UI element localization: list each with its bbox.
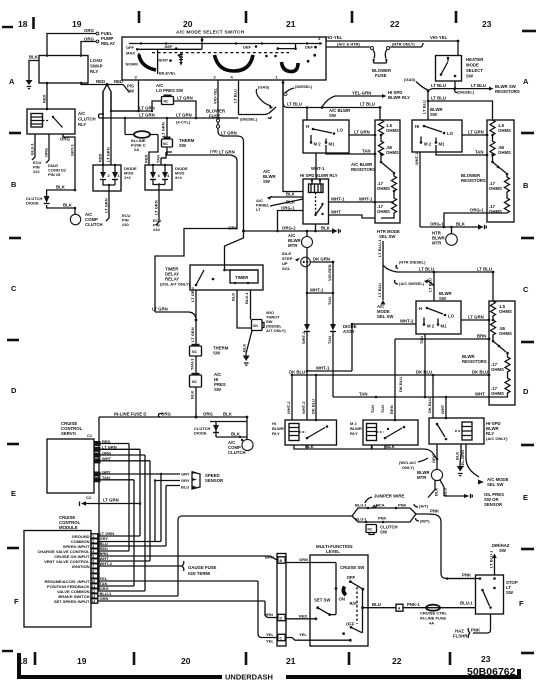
- svg-text:SELECT: SELECT: [466, 68, 483, 73]
- svg-text:YEL: YEL: [266, 639, 274, 644]
- svg-text:DK BLU: DK BLU: [289, 370, 305, 375]
- svg-text:BLK: BLK: [321, 226, 331, 231]
- annotation A/T M/T: [414, 504, 430, 524]
- bottom-left dash: [2, 650, 13, 652]
- svg-text:PNK: PNK: [398, 503, 407, 508]
- svg-text:OHMS: OHMS: [498, 150, 511, 155]
- wire BLU-1 to ECU pin 22: [30, 134, 42, 174]
- svg-text:BRN: BRN: [389, 405, 394, 414]
- svg-text:PNK: PNK: [378, 516, 387, 521]
- svg-text:(DSL A/T ONLY): (DSL A/T ONLY): [160, 282, 191, 287]
- svg-text:LT GRN: LT GRN: [139, 113, 155, 118]
- relay LOAD SWAP RLY: [39, 54, 103, 84]
- svg-text:BLK-1: BLK-1: [244, 291, 249, 304]
- wire RED load swap to P/S SW: [81, 79, 123, 86]
- wire DK BLU WHT into relay3: [427, 374, 447, 418]
- svg-text:A: A: [523, 77, 529, 86]
- svg-text:19: 19: [77, 656, 87, 666]
- resistor bank A/C BLWR RESISTORS: [375, 120, 400, 223]
- wire LT GRN to ECU pin 34: [153, 190, 162, 232]
- wire LT GRN c-row to resistors: [461, 315, 490, 322]
- svg-text:DEF: DEF: [305, 45, 314, 50]
- svg-text:DK BLU: DK BLU: [427, 398, 432, 413]
- svg-text:VIO-YEL: VIO-YEL: [213, 87, 218, 104]
- servo pin A RED: [94, 439, 129, 447]
- svg-text:WHT-1: WHT-1: [310, 288, 324, 293]
- servo pin B2 TAN: [94, 475, 134, 482]
- solenoid IDLE STEP UP SOL: [282, 251, 310, 271]
- svg-text:3: 3: [92, 545, 94, 549]
- svg-text:4A: 4A: [429, 621, 434, 626]
- wire TAN a/c blwr sw to resistors: [326, 145, 376, 155]
- svg-text:D: D: [523, 387, 529, 396]
- tick bottom 4: [348, 652, 351, 665]
- svg-text:(HTR DIESEL): (HTR DIESEL): [399, 260, 426, 265]
- svg-text:OHMS: OHMS: [386, 128, 399, 133]
- svg-text:DK BLU: DK BLU: [398, 377, 403, 392]
- svg-text:CRUISE SW: CRUISE SW: [340, 565, 365, 570]
- svg-text:BLK: BLK: [190, 391, 195, 399]
- svg-text:SW: SW: [439, 296, 447, 301]
- wire LT BLU heater bottom bus: [428, 81, 494, 91]
- svg-text:B: B: [11, 180, 17, 189]
- svg-text:DEF: DEF: [243, 45, 252, 50]
- wire ORG-1 resistors to bus: [444, 208, 489, 228]
- diode module DIODE MOD 3+4: [145, 164, 188, 190]
- wire LT GRN V8 run: [167, 147, 237, 160]
- svg-text:(HTR ONLY): (HTR ONLY): [392, 42, 415, 47]
- svg-text:OHMS: OHMS: [386, 150, 399, 155]
- left dash r5: [7, 547, 19, 550]
- wire LT GRN branch to diode mod 1: [111, 92, 155, 111]
- fuse blower fuse left symbol: [216, 119, 243, 142]
- svg-text:IGN TERMI: IGN TERMI: [188, 571, 210, 576]
- svg-text:OHMS: OHMS: [489, 186, 502, 191]
- svg-text:14: 14: [92, 600, 96, 604]
- wire TAN bus to relays: [333, 392, 446, 414]
- svg-text:LT BLU: LT BLU: [428, 278, 433, 292]
- svg-text:SOL: SOL: [282, 266, 291, 271]
- svg-text:RLY: RLY: [272, 431, 280, 436]
- mode switch selector dashed line: [152, 45, 289, 53]
- svg-text:LT BLU-1: LT BLU-1: [489, 550, 494, 568]
- lamp A/C panel light symbol: [179, 53, 183, 66]
- mode switch inner contact rail: [129, 37, 322, 45]
- svg-text:BLU-1: BLU-1: [460, 601, 473, 606]
- node fuel pump relay label: [101, 31, 115, 46]
- svg-text:MTR: MTR: [417, 475, 427, 480]
- annotation A/C DIESEL: [395, 279, 434, 286]
- motor A/C COMP CLUTCH 2: [228, 439, 253, 455]
- svg-text:YEL: YEL: [266, 632, 274, 637]
- wire TAN c-row sw down: [419, 334, 425, 397]
- svg-text:RED: RED: [96, 79, 105, 84]
- svg-text:(DIESEL): (DIESEL): [457, 90, 475, 95]
- tick top 5: [455, 11, 458, 23]
- svg-text:(A/T): (A/T): [419, 504, 429, 509]
- SEC_CROW: [289, 229, 515, 420]
- svg-text:LO: LO: [447, 131, 454, 136]
- tick top 3: [245, 11, 248, 23]
- svg-text:E: E: [523, 493, 528, 502]
- svg-text:MODE: MODE: [466, 63, 479, 68]
- svg-text:GRY-1: GRY-1: [70, 143, 75, 156]
- svg-text:PNK: PNK: [430, 509, 440, 514]
- svg-text:M 2: M 2: [424, 142, 432, 147]
- connector SPEED SENSOR: [192, 471, 224, 489]
- svg-text:BLU: BLU: [372, 602, 381, 607]
- svg-text:SET SW: SET SW: [314, 598, 331, 603]
- SEC_RELAYS: [272, 370, 509, 507]
- wire LT GRN horizontal 4CYL run: [99, 113, 239, 125]
- wire ORG clutch rly to GRY-1: [60, 134, 75, 190]
- switch THERM SW lower: [190, 344, 229, 356]
- switch P/S SW: [123, 84, 135, 94]
- wire BLU-1 fork upper branch NCA: [352, 503, 416, 517]
- svg-text:DIODE: DIODE: [26, 201, 39, 206]
- svg-text:SWAP: SWAP: [90, 64, 103, 69]
- svg-text:RED: RED: [42, 94, 47, 103]
- switch CLUTCH SW: [366, 525, 398, 535]
- pin 2 label: [214, 75, 217, 80]
- wire WHT resistors to relay3: [440, 392, 489, 415]
- wire LT GRN blwr sw to resistors B: [462, 130, 488, 137]
- fuse IN-LINE FUSE C 2A: [124, 117, 158, 152]
- svg-text:PNK-1: PNK-1: [407, 602, 421, 607]
- svg-text:YEL-GRN: YEL-GRN: [352, 91, 371, 96]
- svg-text:ORG: ORG: [84, 37, 94, 42]
- SEC_MIDDLE: [99, 142, 357, 591]
- svg-text:RELAY: RELAY: [101, 41, 115, 46]
- annotation A/C PANEL LT: [256, 192, 303, 213]
- wire VIO-RED down: [327, 262, 333, 324]
- svg-text:RLY: RLY: [350, 431, 358, 436]
- svg-text:BLK: BLK: [286, 200, 296, 205]
- annotation DIESEL pointer: [284, 84, 313, 96]
- servo pin D WHT: [94, 456, 150, 464]
- svg-text:WHT-1: WHT-1: [414, 152, 419, 165]
- svg-text:C: C: [95, 453, 98, 458]
- svg-text:R/A: R/A: [350, 601, 357, 606]
- connector A: [396, 604, 403, 611]
- svg-text:RED: RED: [144, 154, 149, 163]
- svg-text:LT BLU: LT BLU: [377, 283, 382, 297]
- svg-text:LT BLU: LT BLU: [287, 102, 302, 107]
- SEC_BOTTOM: [258, 494, 518, 647]
- svg-text:SENSOR: SENSOR: [484, 502, 503, 507]
- svg-text:TAN: TAN: [370, 405, 375, 413]
- svg-text:10: 10: [92, 580, 96, 584]
- top-right dash: [522, 30, 536, 33]
- annotation GAUGE FUSE IGN TERMI: [182, 561, 217, 576]
- svg-text:A/T ONLY): A/T ONLY): [266, 328, 286, 333]
- svg-text:NC: NC: [192, 380, 198, 384]
- svg-text:TIMER: TIMER: [235, 275, 249, 280]
- svg-text:2A: 2A: [134, 147, 139, 152]
- svg-text:BLK: BLK: [63, 203, 73, 208]
- SEC_BLOWERA: [244, 106, 401, 248]
- wire BLU-1 brake switch long run: [178, 516, 352, 596]
- svg-text:BLK: BLK: [56, 185, 66, 190]
- svg-text:GRN: GRN: [299, 557, 308, 562]
- svg-text:LT GRN: LT GRN: [468, 315, 484, 320]
- svg-text:TAN: TAN: [327, 297, 332, 305]
- svg-text:LT GRN: LT GRN: [219, 150, 235, 155]
- servo pin B LT GRN: [94, 445, 140, 452]
- wire WHT-2 into c-row sw: [307, 319, 416, 372]
- svg-text:LT BLU: LT BLU: [431, 83, 446, 88]
- svg-text:SW: SW: [127, 89, 135, 94]
- connector strip multi-function: [264, 554, 286, 647]
- svg-text:OHMS: OHMS: [499, 309, 512, 314]
- svg-text:TAN: TAN: [327, 336, 332, 344]
- SEC_TOPLEFT: [26, 28, 239, 232]
- svg-text:BRN: BRN: [477, 334, 486, 339]
- svg-text:VIO-RED: VIO-RED: [327, 264, 332, 281]
- svg-text:(A/C DIESEL): (A/C DIESEL): [399, 281, 425, 286]
- svg-text:FLSHR: FLSHR: [453, 634, 468, 639]
- svg-text:ORG-1: ORG-1: [281, 206, 295, 211]
- mode switch wiper line: [137, 44, 202, 75]
- svg-text:DK BLU: DK BLU: [472, 370, 488, 375]
- svg-text:LT GRN: LT GRN: [152, 307, 168, 312]
- wire LT GRN to ECU pin 30: [104, 191, 131, 227]
- relay HI SPD BLWR RLY upper: [300, 173, 338, 224]
- svg-text:RLY: RLY: [90, 69, 98, 74]
- svg-text:WHT: WHT: [440, 404, 445, 414]
- svg-text:TAN-1: TAN-1: [190, 358, 195, 370]
- wire YEL-GRN to hi spd blwr rly: [322, 90, 410, 107]
- wire VIO-YEL top bus pin3: [318, 35, 458, 41]
- svg-text:CLUTCH: CLUTCH: [228, 450, 246, 455]
- svg-text:BLK: BLK: [434, 488, 439, 496]
- svg-text:M1: M1: [441, 324, 448, 329]
- svg-text:GAUGE FUSE: GAUGE FUSE: [188, 565, 217, 570]
- svg-text:A: A: [9, 77, 15, 86]
- speed sensor wires: [154, 472, 190, 490]
- wire ORG junction into timer relay: [225, 142, 246, 265]
- svg-text:CLUTCH: CLUTCH: [78, 117, 96, 122]
- mode switch right dots: [265, 45, 317, 63]
- svg-text:SW: SW: [499, 548, 507, 553]
- box MULTI-FUNCTION LEVEL: [310, 544, 368, 646]
- wire WHT-1 relay to resistors: [329, 197, 395, 204]
- label A/C BLWR RESISTORS: [351, 162, 376, 172]
- wire PNK to haz flshr: [453, 614, 491, 639]
- svg-text:DEF: DEF: [165, 44, 174, 49]
- svg-text:IN-LINE FUSE D: IN-LINE FUSE D: [114, 412, 146, 417]
- svg-text:4: 4: [92, 550, 94, 554]
- wire DK BLU long bus: [289, 370, 490, 393]
- svg-text:RED: RED: [299, 613, 308, 618]
- svg-text:H: H: [306, 124, 309, 129]
- wire WHT-2 diode down: [301, 331, 307, 371]
- box CRUISE CONTROL MODULE: [24, 515, 91, 627]
- wire YEL strip to lever: [286, 632, 352, 642]
- svg-text:OHMS: OHMS: [491, 391, 504, 396]
- svg-text:11: 11: [92, 585, 96, 589]
- relay A/C CLUTCH RLY: [27, 108, 96, 134]
- svg-text:LT BLU: LT BLU: [431, 96, 446, 101]
- svg-text:LO PRES SW: LO PRES SW: [156, 88, 184, 93]
- svg-text:OFF: OFF: [126, 45, 135, 50]
- wire htr mode sel sw to a/c mode sel sw: [377, 229, 400, 300]
- label A/C BLWR SW: [329, 108, 351, 118]
- svg-text:M1: M1: [439, 142, 446, 147]
- svg-text:ASSY: ASSY: [343, 329, 355, 334]
- svg-text:DK GRN: DK GRN: [313, 257, 330, 262]
- svg-text:M 2: M 2: [314, 142, 322, 147]
- wire BLK load swap to ground: [29, 55, 39, 78]
- top-left dash: [2, 26, 13, 28]
- wire bundle verticals: [129, 444, 166, 592]
- svg-text:ON: ON: [253, 324, 259, 328]
- svg-text:NC: NC: [164, 100, 169, 104]
- tick top 2: [138, 11, 141, 23]
- svg-text:OHMS: OHMS: [489, 209, 502, 214]
- svg-text:IGNITION: IGNITION: [72, 564, 90, 569]
- svg-text:ORG: ORG: [44, 148, 49, 157]
- svg-text:23: 23: [482, 19, 492, 29]
- svg-text:BLK: BLK: [305, 444, 315, 449]
- svg-text:ORG: ORG: [203, 412, 213, 417]
- svg-text:NC: NC: [368, 528, 373, 532]
- motor BLWR MTR bottom: [417, 469, 443, 480]
- svg-text:3+4: 3+4: [175, 175, 183, 180]
- switch THERM SW upper: [161, 117, 195, 148]
- tick bottom 2: [133, 652, 136, 665]
- svg-text:2: 2: [92, 540, 94, 544]
- svg-text:(V8): (V8): [210, 149, 218, 154]
- wire WHT relay to resistors: [329, 210, 376, 219]
- svg-text:A/C MODE SELECT SWITCH: A/C MODE SELECT SWITCH: [176, 30, 245, 35]
- left dash r4: [7, 443, 19, 446]
- svg-text:LT GRN: LT GRN: [468, 130, 484, 135]
- svg-text:NC: NC: [163, 142, 168, 146]
- switch A/C BLWR SW box: [303, 120, 349, 153]
- label BLWR RESISTORS c-row: [462, 354, 487, 364]
- svg-text:MAX: MAX: [126, 51, 135, 56]
- SEC_BLOWERB: [412, 120, 514, 246]
- wire WHT-1 cross diode assy: [306, 248, 335, 325]
- svg-text:HI: HI: [415, 124, 419, 129]
- wire ORG to fuel pump relay 2: [81, 37, 99, 56]
- switch A/C HI PRES SW: [190, 372, 226, 392]
- wire BLK relay bottom to ground: [314, 224, 317, 232]
- SEC_MODESW: [122, 30, 458, 313]
- svg-text:21: 21: [286, 19, 296, 29]
- diode CLUTCH DIODE: [26, 185, 76, 210]
- svg-text:BLU-1: BLU-1: [355, 503, 368, 508]
- svg-text:BLK: BLK: [223, 412, 233, 417]
- svg-text:LT BLU: LT BLU: [233, 89, 238, 103]
- svg-text:18: 18: [18, 19, 28, 29]
- svg-text:#34: #34: [153, 227, 160, 232]
- wire WHT-1 blwr sw down: [414, 152, 420, 227]
- svg-text:DK BLU: DK BLU: [416, 370, 432, 375]
- svg-text:OHMS: OHMS: [498, 128, 511, 133]
- svg-text:A: A: [398, 607, 401, 611]
- svg-text:VENT: VENT: [158, 58, 169, 63]
- svg-text:B: B: [523, 181, 529, 190]
- wire TAN-1 therm to hi pres: [190, 356, 197, 375]
- svg-text:LT BLU: LT BLU: [477, 267, 492, 272]
- svg-text:C1: C1: [87, 433, 93, 438]
- ground a/c blwr relay: [244, 226, 341, 234]
- tick top 4: [351, 11, 354, 23]
- svg-text:BLK: BLK: [29, 55, 39, 60]
- svg-text:5: 5: [92, 555, 94, 559]
- svg-text:MODULE: MODULE: [59, 525, 78, 530]
- wire BLK relay3 to ground: [455, 444, 462, 464]
- svg-text:TAN: TAN: [380, 405, 385, 413]
- wire ORG fuse D down to module: [98, 417, 100, 591]
- svg-text:#30: #30: [122, 222, 129, 227]
- svg-text:YEL-GRN: YEL-GRN: [460, 450, 465, 468]
- annotation GAS curve: [256, 85, 273, 110]
- svg-text:PIN #5: PIN #5: [48, 172, 61, 177]
- svg-text:1: 1: [92, 535, 94, 539]
- svg-text:LT BLU: LT BLU: [360, 102, 375, 107]
- svg-text:SW: SW: [213, 351, 221, 356]
- svg-text:JUMPER WIRE: JUMPER WIRE: [374, 494, 404, 499]
- wire BLK-1 timer to throt sw top: [244, 290, 251, 320]
- tick bottom 1: [34, 652, 37, 665]
- svg-text:(A/C ONLY): (A/C ONLY): [486, 436, 508, 441]
- svg-text:SW: SW: [263, 179, 271, 184]
- svg-text:23: 23: [481, 654, 491, 664]
- switch STOP LT SW: [447, 575, 518, 614]
- svg-text:WHT-2: WHT-2: [301, 401, 306, 414]
- svg-text:C: C: [11, 284, 17, 293]
- svg-text:BLK: BLK: [456, 222, 466, 227]
- svg-text:LT GRN: LT GRN: [221, 131, 237, 136]
- svg-text:D: D: [95, 459, 98, 464]
- svg-text:CLUTCH: CLUTCH: [85, 222, 103, 227]
- label blower fuse top: [372, 68, 392, 78]
- svg-text:A: A: [95, 472, 98, 477]
- svg-text:BLK: BLK: [286, 192, 296, 197]
- svg-text:OHMS: OHMS: [491, 367, 504, 372]
- svg-text:WHT-1: WHT-1: [316, 366, 330, 371]
- underdash bracket line right: [286, 669, 519, 677]
- switch W/O THROT SW: [242, 310, 287, 354]
- underdash bracket line left: [19, 653, 222, 677]
- svg-text:SW: SW: [179, 143, 187, 148]
- svg-text:FUSE: FUSE: [209, 114, 221, 119]
- svg-text:ON: ON: [339, 597, 345, 602]
- svg-text:LT GRN: LT GRN: [104, 198, 109, 213]
- svg-text:LOAD: LOAD: [90, 58, 102, 63]
- wire TAN diode down: [327, 335, 333, 397]
- wire TAN to diode mod 4: [156, 152, 173, 165]
- svg-text:13: 13: [92, 595, 96, 599]
- svg-text:WHT: WHT: [475, 392, 485, 397]
- switch HEATER MODE SELECT SW: [436, 56, 485, 82]
- pin 1 label: [276, 75, 279, 80]
- wire DK GRN idle sol: [311, 257, 335, 264]
- wire ORG-2 vertical to blwr mtr: [276, 230, 279, 233]
- svg-text:HI SPD BLWR RLY: HI SPD BLWR RLY: [300, 173, 338, 178]
- wire LT BLU c-row bus: [419, 267, 494, 274]
- mode switch right link: [277, 44, 297, 50]
- svg-text:8: 8: [92, 570, 94, 574]
- svg-text:21: 21: [286, 656, 296, 666]
- svg-text:RESISTORS: RESISTORS: [462, 359, 487, 364]
- right dash r3: [521, 341, 534, 344]
- svg-text:SW: SW: [506, 590, 514, 595]
- wire WHT-1 sw to relay coil: [311, 153, 325, 179]
